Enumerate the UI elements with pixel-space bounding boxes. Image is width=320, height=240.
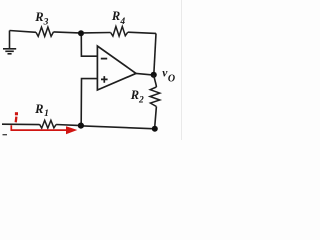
wire right vertical top (154, 33, 156, 74)
svg-text:2: 2 (138, 96, 144, 106)
op-amp U1 (97, 46, 136, 90)
wire ground to R3 (10, 31, 37, 33)
svg-text:R: R (34, 102, 43, 116)
wire R4 to corner (128, 32, 156, 33)
node vO (151, 72, 157, 78)
minus sign (101, 58, 107, 60)
resistor R4 (111, 26, 128, 36)
wire bottom (83, 126, 152, 129)
wire op-amp output (136, 73, 151, 74)
node bottom right (152, 126, 158, 132)
svg-text:O: O (168, 73, 175, 84)
wire left to R1 (2, 123, 40, 125)
svg-text:1: 1 (44, 109, 49, 119)
svg-text:R: R (34, 10, 43, 24)
current arrow (11, 125, 66, 130)
node junction top (78, 30, 84, 36)
node bottom junction (78, 123, 84, 129)
resistor R2 (150, 87, 160, 107)
resistor R1 (40, 120, 57, 128)
svg-text:R: R (111, 9, 120, 23)
svg-text:3: 3 (43, 18, 49, 28)
wire noninverting input (81, 79, 97, 124)
svg-text:R: R (130, 88, 139, 102)
resistor R3 (36, 27, 54, 36)
scan artifact right edge (181, 0, 183, 140)
wire node to R4 (83, 32, 111, 34)
scan artifact dash bottom left (3, 134, 8, 136)
wire R2 to bottom node (155, 107, 157, 127)
wire inverting input (81, 36, 97, 56)
wire R3 to node (54, 32, 80, 33)
plus sign (101, 76, 108, 83)
wire R1 to node (56, 124, 78, 127)
ground (3, 31, 16, 54)
wire node to R2 (154, 75, 157, 87)
label i (current) (15, 112, 18, 115)
svg-text:4: 4 (119, 17, 125, 27)
